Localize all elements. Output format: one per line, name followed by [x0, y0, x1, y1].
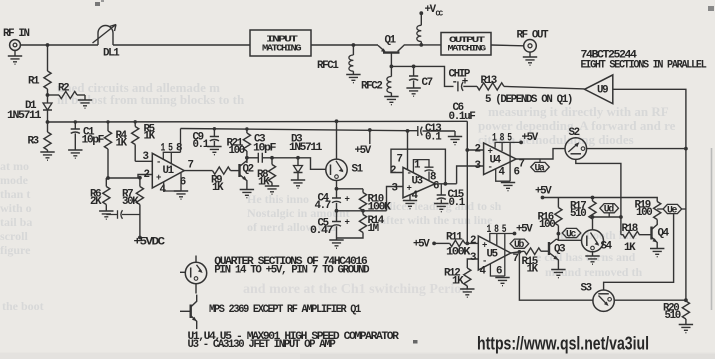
svg-text:7: 7: [519, 159, 525, 171]
svg-text:-: -: [407, 169, 411, 179]
svg-text:Q3: Q3: [554, 244, 565, 256]
svg-text:U3 - CA3130 JFET INPUT OP AMP: U3 - CA3130 JFET INPUT OP AMP: [188, 339, 337, 351]
svg-text:+5VDC: +5VDC: [134, 237, 166, 249]
svg-text:R2: R2: [58, 83, 69, 95]
svg-text:+5V: +5V: [522, 132, 539, 144]
capacitor C6 chip: [449, 69, 478, 124]
wire U5 out to R15: [511, 251, 525, 253]
wire rail B (+5V to U1 pin8/C9/R21): [181, 129, 418, 131]
page edge artifact right: [711, 148, 713, 310]
svg-text:S3: S3: [581, 283, 592, 295]
capacitor C13: [418, 123, 462, 145]
svg-text:at mo: at mo: [0, 159, 29, 173]
svg-text:U9: U9: [597, 85, 608, 97]
wire bus down: [685, 149, 687, 301]
svg-text:510: 510: [665, 310, 681, 322]
svg-text:3: 3: [392, 183, 398, 195]
INPUT MATCHING box: [250, 30, 311, 56]
svg-text:6: 6: [496, 266, 502, 278]
capacitor C5: [310, 211, 350, 248]
svg-text:R11: R11: [446, 232, 463, 244]
node R1/R2/D1: [46, 93, 50, 97]
transistor Q2: [240, 158, 255, 198]
wire U1 out: [184, 170, 212, 172]
node Q2 collector / C3: [245, 156, 249, 160]
wire U4 out to S2: [516, 149, 565, 159]
wire U3 out to U4 pin3: [457, 166, 484, 184]
svg-text:100: 100: [636, 207, 652, 219]
node Ue label: [657, 204, 686, 215]
svg-text:0.47: 0.47: [310, 225, 333, 237]
svg-text:1M: 1M: [368, 223, 379, 235]
svg-text:Uc: Uc: [566, 229, 577, 240]
resistor R21: [227, 129, 251, 163]
svg-text:C7: C7: [422, 77, 433, 89]
svg-text:7: 7: [513, 253, 519, 265]
inductor RFC1: [317, 43, 361, 83]
schematic ink: [20, 44, 378, 46]
+5V node for R11: [413, 239, 450, 251]
svg-text:measuring it directly with an: measuring it directly with an RF: [488, 104, 669, 119]
capacitor C7: [406, 65, 432, 97]
svg-text:R13: R13: [481, 75, 497, 87]
resistor R3: [28, 122, 55, 160]
transistor Q1: [378, 35, 441, 67]
svg-text:2: 2: [470, 235, 476, 247]
wire rail A down to U4 pin2 and R11: [467, 121, 483, 243]
svg-text:R18: R18: [622, 223, 638, 235]
node bus/S2: [684, 147, 688, 151]
capacitor C1: [68, 122, 104, 158]
svg-text:+5V: +5V: [413, 239, 430, 251]
svg-text:2: 2: [475, 144, 481, 156]
delay line DL1: [93, 25, 117, 46]
wire Q3 collector to S4: [557, 239, 582, 240]
svg-text:U3: U3: [412, 176, 423, 188]
capacitor C9: [193, 129, 222, 155]
main input wire: [20, 44, 378, 46]
svg-text:100: 100: [539, 219, 555, 231]
svg-text:100K: 100K: [446, 247, 471, 259]
svg-text:after with the run line: after with the run line: [380, 213, 493, 227]
node S1 bottom / C4 / R10: [335, 187, 339, 191]
node A : detector rail: [46, 120, 50, 124]
svg-text:Nostalgic in amount: Nostalgic in amount: [247, 206, 350, 220]
svg-text:MPS 2369 EXCEPT RF AMPLIFIER Q: MPS 2369 EXCEPT RF AMPLIFIER Q1: [209, 304, 362, 316]
svg-text:0.1: 0.1: [425, 132, 442, 144]
svg-text:tail ba: tail ba: [0, 215, 32, 229]
svg-text:Q2: Q2: [243, 164, 254, 176]
svg-text:2: 2: [144, 169, 150, 181]
resistor R9: [211, 167, 240, 194]
svg-text:1N5711: 1N5711: [7, 110, 42, 122]
svg-text:-: -: [156, 158, 160, 168]
resistor R1: [28, 45, 51, 95]
svg-text:PIN 14 TO +5V, PIN 7 TO GROUND: PIN 14 TO +5V, PIN 7 TO GROUND: [214, 265, 370, 277]
+Vcc choke feed: [417, 4, 444, 47]
capacitor C4: [315, 189, 350, 212]
svg-text:+5V: +5V: [516, 224, 533, 236]
note text: [188, 331, 400, 351]
svg-text:510: 510: [570, 208, 586, 220]
switch S4 74HC4016: [582, 230, 613, 264]
svg-text:R3: R3: [28, 136, 39, 148]
wire Ub to S3: [519, 252, 593, 300]
svg-text:+5V: +5V: [535, 186, 552, 198]
switch S2 74HC4016: [565, 127, 686, 235]
svg-text:Ue: Ue: [667, 205, 678, 216]
svg-text:100K: 100K: [368, 202, 392, 214]
svg-text:with o: with o: [0, 201, 32, 215]
+5V rail bottom right: [535, 186, 657, 202]
op-amp U1 MAX901: [135, 129, 193, 200]
svg-text:+5V: +5V: [355, 145, 372, 157]
capacitor C3: [247, 134, 276, 163]
resistor R12: [444, 268, 474, 298]
wire rail A: [48, 120, 468, 123]
buffer U9 74BCT25244: [581, 50, 707, 104]
resistor R6: [90, 178, 114, 219]
svg-text:the boot: the boot: [2, 299, 44, 313]
svg-text:100: 100: [229, 145, 245, 157]
svg-text:5 (DEPENDS ON Q1): 5 (DEPENDS ON Q1): [485, 94, 572, 106]
svg-text:RFC1: RFC1: [317, 60, 339, 72]
wire to U3 pin3: [387, 187, 404, 211]
resistor R16: [538, 198, 563, 241]
wire U3 output: [435, 183, 457, 185]
svg-text:1N5711: 1N5711: [289, 142, 323, 154]
node Q1 base / RFC2 / C7 line: [390, 65, 394, 69]
switch S1 74HC4016: [326, 119, 364, 188]
svg-text:than t: than t: [0, 187, 30, 201]
+5V stub on rail B: [355, 128, 372, 157]
node R17/S4/control: [591, 215, 595, 219]
OUTPUT MATCHING box: [441, 33, 523, 56]
resistor R2: [48, 83, 93, 109]
diode D3 1N5711: [289, 134, 323, 189]
node S3/R20/bus: [684, 298, 688, 302]
diode D1 1N5711: [7, 95, 52, 122]
wire C3 to D3 to S1: [272, 158, 326, 170]
resistor R15: [522, 248, 550, 276]
node at R1 top: [46, 43, 50, 47]
svg-text:0.1uF: 0.1uF: [449, 111, 476, 123]
node Ub label: [510, 239, 529, 254]
svg-text:10pF: 10pF: [82, 135, 104, 147]
svg-text:RF IN: RF IN: [3, 28, 30, 40]
resistor R19: [635, 200, 661, 224]
svg-text:MATCHING: MATCHING: [448, 44, 487, 54]
svg-text:0.1: 0.1: [193, 139, 210, 151]
svg-text:0.1: 0.1: [449, 197, 466, 209]
resistor R10: [359, 189, 391, 214]
transistor Q4: [650, 223, 670, 257]
wire U3 pin7 stub: [407, 131, 409, 170]
resistor R18: [621, 223, 652, 254]
resistor R20: [663, 301, 693, 333]
svg-text:DL1: DL1: [103, 48, 120, 60]
svg-text:figure: figure: [0, 243, 31, 257]
wire U9 input from bus: [613, 89, 686, 148]
legend transistor symbol: [180, 295, 362, 330]
resistor R13: [477, 75, 585, 106]
op-amp U4 MAX901: [475, 132, 539, 191]
svg-text:7: 7: [397, 154, 403, 166]
capacitor R7-R6 bypass: [106, 210, 140, 219]
svg-text:https://www.qsl.net/va3iul: https://www.qsl.net/va3iul: [477, 333, 649, 354]
wire U3 comp cap pins 1-8: [413, 160, 433, 181]
svg-text:3: 3: [475, 160, 481, 172]
resistor R4: [104, 122, 127, 178]
svg-text:6: 6: [433, 181, 439, 193]
node Ud label: [600, 204, 619, 217]
svg-text:MATCHING: MATCHING: [262, 44, 301, 54]
svg-text:RFC2: RFC2: [361, 81, 382, 93]
wire U5 pin3 to R12: [467, 259, 478, 268]
svg-text:e coil has turns and: e coil has turns and: [536, 250, 636, 264]
svg-text:EIGHT SECTIONS IN PARALLEL: EIGHT SECTIONS IN PARALLEL: [581, 60, 707, 72]
legend switch symbol: [180, 256, 370, 294]
op-amp U5 MAX901: [470, 224, 533, 286]
RF OUT connector: [517, 30, 550, 66]
svg-text:Ua: Ua: [535, 163, 546, 174]
node C4/C5 mid: [335, 209, 339, 213]
resistor R14: [337, 211, 385, 238]
svg-text:7: 7: [188, 160, 194, 172]
node Ua label: [531, 159, 550, 174]
svg-text:and more at the Ch1 switching: and more at the Ch1 switching Period: [243, 282, 469, 297]
wire U1 pin2 net from R4: [106, 176, 110, 180]
node Uc label: [557, 228, 581, 239]
ghost bleed-through text: [0, 80, 715, 359]
svg-text:30K: 30K: [122, 196, 139, 208]
op-amp U3 CA3130: [390, 154, 439, 209]
svg-text:U5: U5: [487, 249, 498, 261]
svg-text:3: 3: [470, 252, 476, 264]
resistor R11: [446, 232, 478, 259]
svg-text:mode: mode: [0, 173, 29, 187]
svg-text:scroll: scroll: [0, 229, 28, 243]
svg-text:4.7: 4.7: [315, 200, 331, 212]
resistor R17: [570, 196, 596, 230]
svg-text:He this inno: He this inno: [247, 192, 309, 206]
RF IN connector J1: [3, 28, 30, 64]
capacitor C15: [434, 184, 466, 212]
resistor R5: [132, 122, 156, 162]
switch S3 74HC4016: [581, 214, 686, 311]
resistor R7: [122, 176, 166, 249]
node R8 top: [270, 156, 274, 160]
node R11/U5 pin2: [465, 242, 469, 246]
svg-text:Ub: Ub: [514, 239, 525, 250]
svg-text:10pF: 10pF: [253, 143, 276, 155]
transistor Q3: [549, 239, 566, 278]
wire U3 feedback pin2 loop: [391, 149, 445, 184]
resistor R8: [257, 158, 279, 194]
inductor RFC2: [361, 66, 399, 104]
node U3 pin7: [406, 129, 410, 133]
